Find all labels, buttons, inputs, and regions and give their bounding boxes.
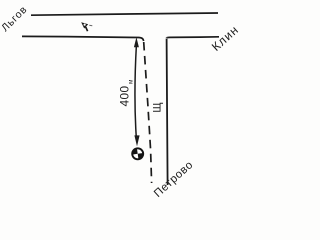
arrowhead up xyxy=(134,37,139,47)
road top line xyxy=(31,13,218,15)
branch road solid east side xyxy=(167,39,168,186)
svg-text:Петрово: Петрово xyxy=(152,159,196,200)
road label Щ xyxy=(152,102,164,112)
branch road dashed west side xyxy=(144,42,152,183)
road label p. xyxy=(81,22,92,31)
distance label 400 m xyxy=(118,79,135,106)
road bottom line right segment xyxy=(167,37,220,38)
town label Льгов xyxy=(0,3,30,34)
svg-text:Клин: Клин xyxy=(209,22,242,53)
road bottom line left segment xyxy=(22,36,144,41)
arrowhead down xyxy=(134,135,139,146)
svg-text:400: 400 xyxy=(118,86,132,107)
svg-text:м: м xyxy=(127,79,134,84)
village label Петрово xyxy=(152,159,196,200)
svg-text:Щ: Щ xyxy=(152,102,164,112)
distance arrow shaft xyxy=(135,45,136,136)
observation point symbol (quartered circle) xyxy=(132,148,143,159)
svg-text:Льгов: Льгов xyxy=(0,3,30,34)
town label Клин xyxy=(209,22,242,53)
